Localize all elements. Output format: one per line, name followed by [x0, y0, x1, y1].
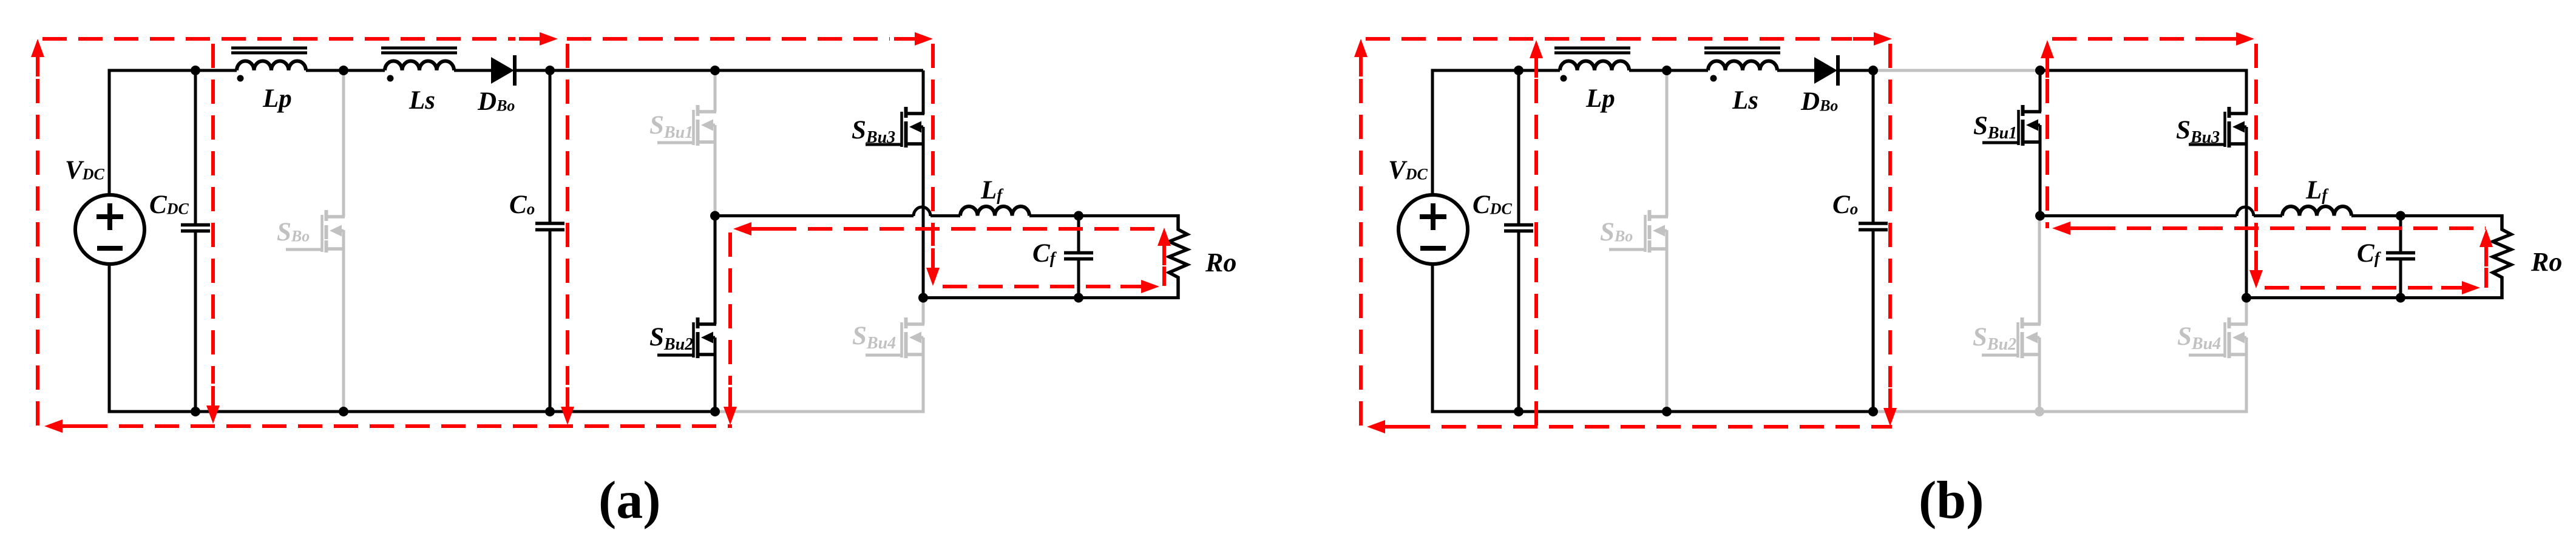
current path: vertical at C_DC (a) [211, 44, 215, 384]
capacitor C_o plates (b) [1859, 222, 1888, 225]
wire: S_Bo source to bottom rail (gray) [342, 230, 345, 412]
transistor S_Bo (gray) [325, 215, 345, 219]
inductor Ls phase dot (b) [1710, 75, 1717, 82]
capacitor Cf plates [1064, 251, 1093, 255]
current path: mid output horizontal (a) [733, 222, 751, 236]
node: bottom rail junctions (b) [1514, 407, 1524, 416]
current path: vertical at C_DC (b) [1530, 40, 1543, 58]
wire: node A to crossover [715, 214, 913, 217]
wire: (b) source bottom to ground rail [1431, 264, 1434, 413]
wire: S_Bu3 drain from top rail [922, 70, 925, 114]
transistor S_Bu2 [714, 216, 717, 325]
current path: vertical at C_o (b) [1888, 44, 1892, 387]
inductor Lp core bars (b) [1554, 47, 1630, 50]
wire: hop to Lf (b) [2254, 214, 2282, 217]
capacitor C_DC plates (b) [1504, 223, 1533, 227]
wire: (a) left vertical to source [108, 69, 111, 195]
current path: vertical at S_Bu3 (a) [931, 44, 935, 246]
wire: S_Bu3 source to node B (b) [2245, 127, 2248, 298]
svg-text:Ls: Ls [1732, 86, 1758, 115]
transistor S_Bu4 gray (b) [2245, 298, 2248, 325]
wire: (b) top rail black [1432, 69, 1560, 72]
transistor S_Bu3 (b) [2228, 112, 2248, 115]
wire: (a) bottom rail (black) [109, 410, 715, 413]
wire: S_Bu1 source to node A (gray) [714, 125, 717, 216]
wire crossover hop (b) [2237, 207, 2254, 216]
current path: top horizontal (b) [1366, 37, 1852, 41]
transistor S_Bu3 [904, 112, 925, 115]
transistor S_Bu2 gray (b) [2038, 216, 2041, 325]
capacitor C_o branch wire upper (b) [1872, 70, 1875, 222]
node: Cf bottom junction (a) [1074, 293, 1083, 303]
diode D_Bo [491, 57, 514, 84]
node: S_Bu2 bottom junction gray (b) [2035, 407, 2044, 416]
capacitor Cf plates (b) [2386, 251, 2415, 255]
svg-text:Lp: Lp [1585, 84, 1615, 113]
node A: bridge left midpoint (a) [710, 211, 720, 221]
transistor S_Bu1 (gray) [696, 110, 717, 114]
wire: S_Bu4 source to bottom rail (gray) [922, 338, 925, 412]
current path: left loop left vertical (b) [1354, 39, 1368, 57]
node: top rail junctions (a) [191, 66, 200, 75]
current path: bottom horizontal (b) [1367, 420, 1385, 433]
current path: vertical at C_o (a) [566, 44, 569, 385]
capacitor C_o plates [535, 222, 564, 225]
wire: S_Bo source to bottom rail gray (b) [1666, 230, 1669, 412]
capacitor C_o branch wire lower [549, 231, 552, 412]
node: Cf top junction (a) [1074, 211, 1083, 221]
svg-text:(b): (b) [1919, 471, 1984, 530]
inductor Lf winding [960, 206, 1029, 216]
resistor Ro [1169, 214, 1187, 299]
wire: node A to crossover (b) [2040, 214, 2237, 217]
inductor Lp winding [237, 61, 306, 70]
capacitor Cf branch wire lower (b) [2399, 260, 2402, 298]
transistor S_Bu1 (b) [2021, 110, 2042, 114]
inductor Lf winding (b) [2282, 206, 2351, 216]
wire: hop to Lf [930, 214, 960, 217]
capacitor Cf branch wire lower [1077, 260, 1080, 298]
node: Cf bottom junction (b) [2396, 293, 2405, 303]
wire: output bottom rail (b) [2246, 296, 2502, 299]
wire: S_Bu1 drain (gray) [714, 70, 717, 112]
wire: (a) top rail [109, 69, 237, 72]
inductor Ls winding (b) [1708, 61, 1777, 70]
inductor Lp winding (b) [1560, 61, 1629, 70]
current path: lower output horizontal (b) [2265, 286, 2441, 290]
svg-text:Lp: Lp [262, 84, 292, 113]
capacitor C_DC branch wire lower [194, 232, 197, 412]
current path: vertical at Ro (b) [2479, 229, 2493, 247]
capacitor C_o branch wire upper [549, 70, 552, 222]
wire: S_Bu2 source to bottom rail [714, 338, 717, 412]
capacitor Cf branch wire upper (b) [2399, 216, 2402, 252]
node A: bridge left midpoint (b) [2035, 211, 2045, 221]
capacitor C_DC plates [181, 223, 210, 227]
wire: (a) bottom rail gray segment [715, 410, 925, 413]
wire: (a) source bottom to ground rail [108, 264, 111, 413]
inductor Ls core bars (b) [1704, 47, 1780, 50]
current path: vertical at S_Bu2 (a) [728, 232, 732, 385]
wire: S_Bu1 source to node A (b) [2039, 125, 2042, 216]
current path: mid output horizontal (b) [2052, 222, 2070, 235]
current path: bridge loop top horizontal (b) [2052, 37, 2215, 41]
transistor S_Bo gray (b) [1648, 215, 1669, 219]
capacitor C_DC branch wire upper (b) [1517, 70, 1520, 223]
current path: left loop left vertical (a) [31, 39, 44, 57]
current path: vertical at Ro (a) [1158, 228, 1171, 246]
transistor S_Bu4 (gray) [922, 298, 925, 325]
node: Cf top junction (b) [2396, 211, 2405, 221]
diode D_Bo (b) [1814, 57, 1837, 84]
capacitor Cf branch wire upper [1077, 216, 1080, 252]
inductor Lp phase dot [237, 75, 244, 82]
capacitor C_DC branch wire lower (b) [1517, 232, 1520, 412]
inductor Lp core bars [231, 47, 307, 50]
inductor Ls core bars [381, 47, 457, 50]
svg-text:Ro: Ro [2530, 247, 2562, 277]
wire: (b) bottom rail gray segment [1873, 410, 2248, 413]
inductor Ls phase dot [387, 75, 394, 82]
voltage source V_DC symbol (b) [1398, 195, 1468, 264]
current path: lower output horizontal (a) [943, 285, 1120, 288]
svg-text:Ro: Ro [1205, 248, 1236, 277]
current path: bridge loop right vertical (b) [2254, 44, 2258, 249]
wire: (b) top rail gray segment [1873, 69, 2040, 72]
wire: output bottom rail (a) [923, 296, 1178, 299]
node B: bridge right midpoint (b) [2242, 293, 2251, 303]
inductor Ls winding [385, 61, 454, 70]
voltage source V_DC symbol [75, 195, 144, 264]
node: top rail junctions (b) [1514, 66, 1524, 75]
capacitor C_o branch wire lower (b) [1872, 231, 1875, 412]
wire: (b) left vertical to source [1431, 69, 1434, 195]
wire: S_Bu2 source to bottom rail gray (b) [2038, 338, 2041, 412]
node B: bridge right midpoint (a) [918, 293, 928, 303]
wire: (b) bridge top rail [2040, 69, 2248, 72]
svg-text:Ls: Ls [408, 86, 435, 115]
wire: Lf to Ro corner (b) [2351, 214, 2502, 217]
inductor Lp phase dot (b) [1561, 75, 1567, 82]
current path: top horizontal with arrows (a) [42, 37, 515, 41]
wire: S_Bo drain (gray) [342, 70, 345, 217]
current path: bottom horizontal (a) [44, 419, 63, 433]
wire crossover hop (a) [913, 207, 930, 216]
wire: (b) bottom rail black [1432, 410, 1873, 413]
resistor Ro (b) [2493, 214, 2511, 299]
wire: S_Bu1 drain (b) [2039, 70, 2042, 112]
wire: Lf to Ro corner [1029, 214, 1178, 217]
capacitor C_DC branch wire upper [194, 70, 197, 223]
current path: bridge loop left vertical (b) [2041, 40, 2054, 58]
wire: S_Bu3 source to node B [922, 127, 925, 298]
svg-text:(a): (a) [598, 471, 661, 530]
node: bottom rail junctions (a) [191, 407, 200, 416]
wire: S_Bo drain gray (b) [1666, 70, 1669, 217]
